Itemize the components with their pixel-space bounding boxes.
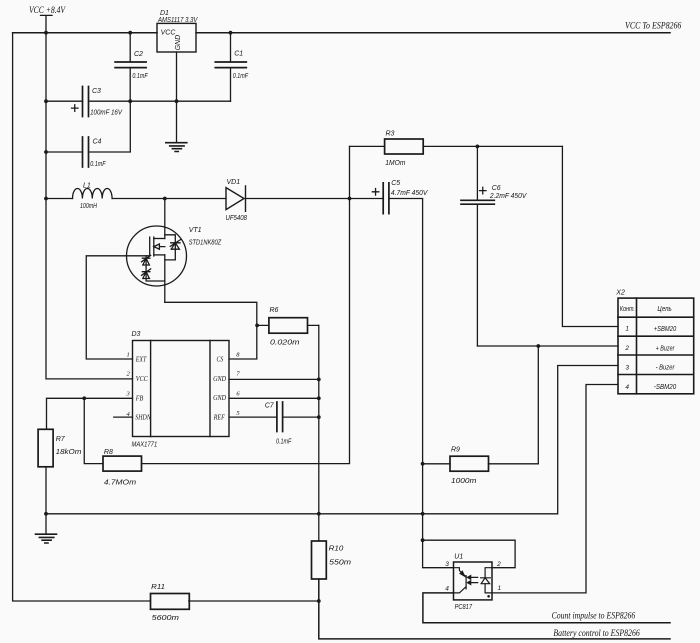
junction U1 pin3 branch [421,538,425,542]
junction R9 left / C5 bus [421,462,425,466]
junction C5 left node [348,197,352,201]
junction +8.4V rail / top rail [44,31,48,35]
diode VD1 UF5408 [226,179,248,222]
wire right bus x=318.8 [318,325,320,541]
wire L1 to VD1 [112,198,226,200]
junction R11 right / R10 bus [317,599,321,603]
svg-text:C1: C1 [234,51,243,58]
capacitor C2 [115,33,148,102]
wire GND pin6 [229,397,319,399]
svg-text:EXT: EXT [135,355,147,363]
junction L1 left / +8.4V rail [44,197,48,201]
wire pin4 to count impulse line [423,593,670,623]
node VCC +8.4V terminal [29,5,66,33]
regulator D1 AMS1117 [157,10,199,52]
wire R7 bottom to gnd line [45,467,47,534]
resistor R7 18kOm [38,429,81,467]
capacitor C6 polarized [461,146,528,346]
svg-text:X2: X2 [615,290,625,297]
svg-text:C4: C4 [93,139,102,146]
resistor R8 4.7MOm [84,398,141,486]
svg-text:R3: R3 [386,130,395,137]
junction R6 left / CS wire [255,324,259,328]
wire gnd rail y=101 [46,100,231,102]
svg-text:R6: R6 [270,307,279,314]
resistor R6 0.020m [257,307,319,346]
svg-text:0.1mF: 0.1mF [276,438,292,445]
inductor L1 [46,182,112,210]
wire pin3 of U1 [423,540,454,568]
svg-text:4.7mF 450V: 4.7mF 450V [391,190,429,197]
capacitor C3 polarized [72,87,124,117]
svg-text:R10: R10 [329,545,344,552]
capacitor C5 polarized [372,180,428,214]
svg-text:MAX1771: MAX1771 [132,441,158,448]
X2 pin 3 -Buzer [625,364,675,371]
junction C4 left / +8.4V rail [44,150,48,154]
junction VT1 drain node [163,197,167,201]
wire source to CS pin [165,302,257,359]
wire row2 +Buzer [477,345,618,347]
ground under R7 [36,534,57,543]
svg-text:+SBM20: +SBM20 [654,326,676,333]
wire +8.4V rail x=46 down to D3 VCC pin [46,33,133,379]
junction R9 riser / row2 wire [536,344,540,348]
junction C1 top / top rail [229,31,233,35]
svg-text:3: 3 [126,390,131,397]
svg-text:4.7MOm: 4.7MOm [104,480,136,487]
svg-text:Battery control to ESP8266: Battery control to ESP8266 [553,628,640,638]
wire GND pin7 [229,378,319,380]
wire center rail x=349.5 from R3 down to R8 [142,146,350,463]
junction R7 bottom / gnd line [44,512,48,516]
svg-text:Цепь: Цепь [657,306,672,313]
svg-text:GND: GND [213,375,226,383]
svg-text:GND: GND [213,394,226,402]
capacitor C4 [83,137,107,168]
X2 pin 2 +Buzer [624,345,675,353]
svg-text:550m: 550m [329,560,351,567]
svg-text:2.2mF 450V: 2.2mF 450V [489,193,528,200]
transistor VT1 STD1NK80Z [127,199,222,303]
svg-text:100mF 16V: 100mF 16V [90,110,123,117]
junction C6 top / R3 wire [476,145,480,149]
wire R10 bottom to battery control line [319,579,670,639]
svg-text:Count impulse to ESP8266: Count impulse to ESP8266 [552,611,636,621]
svg-text:-SBM20: -SBM20 [654,384,676,391]
svg-text:FB: FB [135,394,144,402]
wire gate to EXT pin [86,256,149,359]
junction GND pin6 / right bus [317,396,321,400]
wire FB row to R7 [47,398,133,429]
svg-text:C6: C6 [492,185,501,192]
junction C2 top / top rail [128,31,132,35]
svg-text:0.1mF: 0.1mF [90,161,106,168]
svg-text:L1: L1 [83,182,91,189]
svg-text:C2: C2 [134,51,143,58]
capacitor C1 [215,33,248,102]
svg-text:CS: CS [217,355,224,363]
svg-text:2: 2 [496,561,501,568]
svg-text:- Buzer: - Buzer [656,364,675,371]
junction GND pin7 / right bus [317,378,321,382]
wire left outer rail down to R11 [13,33,150,601]
wire top rail right of D1 [196,32,670,34]
svg-text:AMS1117 3.3V: AMS1117 3.3V [157,17,198,24]
svg-text:PC817: PC817 [455,604,473,611]
wire pin1 to X2 row4 [492,385,618,593]
svg-text:2: 2 [624,345,629,352]
svg-text:4: 4 [445,586,449,593]
ground under D1 [166,143,187,152]
svg-text:5600m: 5600m [152,615,180,622]
X2 pin 1 +SBM20 [625,326,676,333]
svg-text:1000m: 1000m [451,478,477,485]
wire VD1 cathode to C5 [246,198,384,200]
junction D1 GND / gnd rail [175,99,179,103]
svg-text:VCC: VCC [136,375,148,383]
svg-text:3: 3 [445,561,449,568]
svg-text:1: 1 [625,326,629,333]
svg-text:R7: R7 [56,436,66,443]
svg-text:+ Buzer: + Buzer [656,346,675,353]
svg-text:R8: R8 [104,449,113,456]
wire C5 right to x=422.6 down [389,199,423,541]
resistor R10 550m [312,541,352,579]
junction gnd rail / +8.4V rail [44,99,48,103]
svg-text:STD1NK80Z: STD1NK80Z [189,239,222,246]
svg-text:Конт.: Конт. [620,306,635,313]
svg-text:3: 3 [625,364,629,371]
X2 header labels [620,306,672,313]
svg-text:VD1: VD1 [227,179,241,186]
chip D3 MAX1771 [126,331,241,449]
resistor R11 5600m [151,584,319,622]
svg-text:C3: C3 [92,88,101,95]
pin stub SHDN [114,416,133,418]
wire pin2 branch [423,540,515,568]
junction C2 bottom / gnd rail [128,99,132,103]
svg-text:0.1mF: 0.1mF [233,73,249,80]
svg-text:VCC To ESP8266: VCC To ESP8266 [625,20,682,30]
svg-text:1: 1 [127,351,130,358]
connector X2 table [618,298,694,394]
svg-text:C7: C7 [265,402,275,409]
svg-text:100mH: 100mH [80,203,98,210]
svg-text:VCC +8.4V: VCC +8.4V [29,5,66,15]
junction C5 bus / gnd line [421,512,425,516]
svg-text:R9: R9 [451,447,460,454]
optocoupler U1 PC817 [445,554,501,611]
svg-text:18kOm: 18kOm [56,449,82,456]
X2 pin 4 -SBM20 [625,384,676,391]
svg-text:1: 1 [498,585,502,592]
wire D1 GND pin down to ground [176,52,178,143]
wire top rail left of D1 [13,32,157,34]
wire C4 row [46,101,130,152]
svg-text:4: 4 [625,384,629,391]
svg-text:UF5408: UF5408 [226,215,248,222]
svg-text:VCC: VCC [161,30,177,37]
svg-text:SHDN: SHDN [135,413,151,421]
resistor R3 1MOm [350,130,563,167]
svg-text:0.1mF: 0.1mF [132,73,148,80]
junction REF / right bus [317,415,321,419]
svg-text:REF: REF [213,413,225,421]
svg-text:D3: D3 [132,331,141,338]
svg-text:R11: R11 [151,584,165,591]
wire REF pin5 through C7 [229,416,319,418]
capacitor C7 [265,402,292,445]
svg-text:C5: C5 [391,180,400,187]
wire gnd rail y=513.8 to X2 row3 [46,366,618,514]
svg-text:GND: GND [175,35,182,51]
svg-text:U1: U1 [454,554,463,561]
wire R3 to X2 pin1 [562,146,618,326]
resistor R9 1000m [423,346,539,485]
svg-text:0.020m: 0.020m [270,339,300,346]
svg-text:VT1: VT1 [189,227,202,234]
junction right bus / gnd line [317,512,321,516]
junction FB / R8 wire [82,396,86,400]
svg-text:1MOm: 1MOm [385,160,405,167]
